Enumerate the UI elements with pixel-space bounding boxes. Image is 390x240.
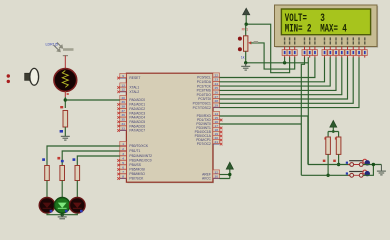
svg-text:PA6/ADC6: PA6/ADC6 bbox=[129, 124, 145, 128]
speaker LS1 bbox=[25, 68, 39, 85]
power terminal +5V above R6 R7 bbox=[330, 120, 337, 131]
wire RV1 wiper to VEE bbox=[251, 43, 295, 69]
svg-text:30: 30 bbox=[214, 174, 218, 178]
svg-text:34: 34 bbox=[121, 122, 125, 126]
resistor R7 bbox=[336, 137, 341, 154]
junction at resistor tops bbox=[332, 130, 335, 133]
U1 right pin names bbox=[193, 76, 212, 181]
svg-text:1k: 1k bbox=[241, 56, 245, 60]
svg-text:12: 12 bbox=[121, 88, 125, 92]
ground symbol below RV1 bbox=[241, 63, 250, 70]
LCD pin number boxes 1-14 bbox=[282, 50, 367, 56]
svg-text:PB0/T0/XCK: PB0/T0/XCK bbox=[129, 144, 148, 148]
junction AREF node bbox=[228, 173, 231, 176]
ground at buttons bbox=[377, 165, 386, 175]
svg-text:PA4/ADC4: PA4/ADC4 bbox=[129, 116, 145, 120]
wire PB1 to R4 bbox=[62, 151, 120, 166]
svg-text:9: 9 bbox=[122, 74, 124, 78]
resistors R3 R4 R5 bbox=[45, 166, 50, 181]
svg-text:PB4/SS: PB4/SS bbox=[129, 163, 141, 167]
svg-text:4: 4 bbox=[342, 23, 347, 35]
LDR1 body bbox=[54, 69, 77, 92]
terminal bar on LDR top wire bbox=[63, 55, 68, 57]
svg-text:3: 3 bbox=[122, 152, 124, 156]
svg-text:LDR1(5: LDR1(5 bbox=[46, 43, 58, 47]
wire PD0 to button row 1 bbox=[220, 116, 308, 165]
junction SW2/ground net bbox=[372, 163, 375, 166]
svg-text:RESET: RESET bbox=[129, 76, 140, 80]
svg-text:PB5/MOSI: PB5/MOSI bbox=[129, 168, 145, 172]
svg-text:RV1: RV1 bbox=[242, 28, 249, 32]
resistor R2 bbox=[63, 111, 68, 128]
potentiometer RV1 bbox=[238, 24, 251, 51]
svg-text:2: 2 bbox=[307, 23, 312, 35]
gray model text bbox=[63, 48, 74, 51]
labels R6 R7 (red) bbox=[324, 137, 327, 139]
wire SW2 right up to row1 net bbox=[363, 165, 373, 176]
svg-text:PA2/ADC2: PA2/ADC2 bbox=[129, 107, 145, 111]
svg-text:PB1/T1: PB1/T1 bbox=[129, 149, 140, 153]
U1 left pin names bbox=[129, 76, 152, 181]
labels above LED resistors (blue/red) bbox=[42, 158, 45, 161]
power terminal +5V (top, above RV1) bbox=[243, 8, 250, 24]
ground below R2 bbox=[61, 136, 70, 140]
wire +5V to VDD (node +5V rail) bbox=[246, 24, 289, 72]
svg-text:PB3/AIN1/OC0: PB3/AIN1/OC0 bbox=[129, 159, 151, 163]
svg-text:AVCC: AVCC bbox=[202, 177, 212, 181]
svg-text:2: 2 bbox=[122, 147, 124, 151]
junction GND at pot bottom bbox=[244, 61, 247, 64]
LCD pin stubs (red) bbox=[285, 47, 365, 58]
svg-text:4: 4 bbox=[122, 156, 124, 160]
wire RS/E jog down to row2 vertical bbox=[301, 57, 304, 175]
small gray text on wiper wire bbox=[254, 41, 259, 43]
svg-text:MIN=: MIN= bbox=[285, 23, 303, 35]
wire VSS stub down to rail bbox=[284, 57, 286, 63]
wire row1 to button SW1 bbox=[308, 164, 350, 166]
junction +5V at pot top bbox=[245, 23, 248, 26]
LCD pin name labels (VSS VDD VEE RS RW E D0-D7, vertical) bbox=[284, 37, 366, 44]
wire LED cathodes to ground rail bbox=[47, 213, 77, 215]
wire PD2 to button row 2 net bbox=[220, 123, 302, 125]
svg-text:MAX=: MAX= bbox=[320, 23, 338, 35]
LDR top pin stub bbox=[64, 56, 66, 69]
junction VSS on ground rail bbox=[283, 61, 286, 64]
LED D2 (on, green) bbox=[54, 198, 70, 214]
LDR light arrows bbox=[54, 43, 64, 53]
wire LDR to R2 and PA0 node bbox=[64, 97, 66, 108]
LED D3 (off, red) bbox=[70, 198, 86, 214]
junction R7/row1 bbox=[337, 163, 340, 166]
wire R6 bottom to row2 bbox=[327, 154, 329, 175]
svg-text:38: 38 bbox=[121, 105, 125, 109]
label R2 (red) bbox=[60, 106, 63, 108]
svg-text:1: 1 bbox=[122, 142, 124, 146]
junction LED ground rail bbox=[61, 213, 64, 216]
wire SW1 right to ground bbox=[363, 164, 381, 166]
wires PC0-PC7 to LCD E/D0..D7 (nested cascade) bbox=[220, 57, 360, 107]
svg-text:PB2/AIN0/INT2: PB2/AIN0/INT2 bbox=[129, 154, 152, 158]
svg-text:PB7/SCK: PB7/SCK bbox=[129, 177, 144, 181]
svg-text:8: 8 bbox=[122, 174, 124, 178]
U1 left pin stubs, number boxes, unconnected markers bbox=[117, 73, 126, 179]
wire R2 to ground bbox=[64, 127, 66, 136]
LED D1 (off, red) bbox=[39, 198, 55, 214]
label R2 value (blue) bbox=[60, 130, 63, 133]
microcontroller U1 ATMEGA32 body bbox=[126, 73, 213, 183]
LCD display LCD1 (LM016L) bbox=[275, 5, 379, 48]
push button SW1 (row1) bbox=[348, 159, 370, 166]
wire node to PA0/ADC0 bbox=[65, 99, 120, 101]
svg-text:36: 36 bbox=[121, 113, 125, 117]
svg-text:40: 40 bbox=[121, 96, 125, 100]
wire PB0 to R3 bbox=[47, 146, 120, 166]
wire RV1 bottom to ground rail / VSS (GND net) bbox=[246, 51, 309, 63]
wire AREF/AVCC to +5V arrow bbox=[220, 170, 230, 179]
wire PB2 to R5 bbox=[77, 156, 120, 166]
connector dots (left edge) bbox=[7, 74, 10, 77]
U1 right pin stubs, number boxes, unconnected markers bbox=[213, 73, 223, 179]
svg-text:PD7/OC2: PD7/OC2 bbox=[197, 142, 211, 146]
svg-text:PA0/ADC0: PA0/ADC0 bbox=[129, 98, 145, 102]
blue labels at LEDs bbox=[50, 210, 53, 213]
red dots at resistor bottoms bbox=[323, 160, 326, 162]
svg-text:6: 6 bbox=[122, 165, 124, 169]
svg-text:PC7/TOSC2: PC7/TOSC2 bbox=[193, 106, 211, 110]
wires resistors to LEDs bbox=[47, 181, 77, 198]
junction ADC0 node bbox=[64, 98, 67, 101]
svg-text:PB6/MISO: PB6/MISO bbox=[129, 172, 145, 176]
svg-text:PA7/ADC7: PA7/ADC7 bbox=[129, 129, 145, 133]
LDR bottom pin stub bbox=[64, 91, 66, 97]
svg-text:33: 33 bbox=[121, 126, 125, 130]
push button SW2 (row2) bbox=[348, 170, 370, 177]
svg-text:21: 21 bbox=[214, 140, 218, 144]
svg-text:7: 7 bbox=[122, 170, 124, 174]
wire RW/GND long vertical down to button row 1 bbox=[307, 57, 309, 164]
resistor R6 bbox=[326, 137, 331, 154]
junction R6/row2 bbox=[326, 174, 329, 177]
wire row2 to button SW2 bbox=[301, 174, 350, 176]
svg-text:XTAL2: XTAL2 bbox=[129, 90, 139, 94]
blue pin labels near buttons bbox=[346, 162, 348, 164]
wire T to resistor tops bbox=[328, 132, 339, 138]
power terminal +5V at AVCC bbox=[226, 162, 233, 169]
svg-text:29: 29 bbox=[214, 103, 218, 107]
wire R7 bottom to row1 bbox=[338, 154, 340, 164]
ground below LEDs bbox=[58, 215, 67, 219]
LCD text line 1: VOLT= 3 bbox=[285, 13, 347, 35]
svg-text:5: 5 bbox=[122, 161, 124, 165]
